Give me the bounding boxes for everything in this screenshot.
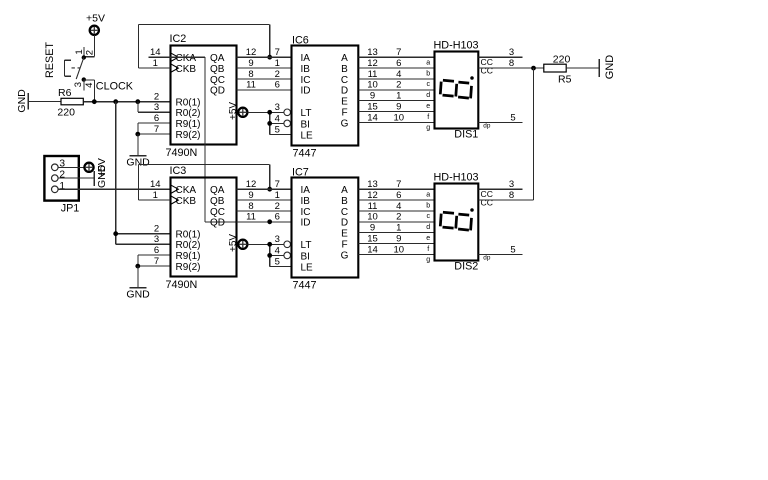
junction at switch output <box>92 99 97 104</box>
svg-text:IC7: IC7 <box>292 166 309 178</box>
connector JP1 <box>44 156 79 214</box>
junction LT <box>267 110 272 115</box>
IC3 pin names inside <box>176 185 226 273</box>
svg-text:IB: IB <box>301 64 311 75</box>
svg-text:HD-H103: HD-H103 <box>434 40 479 52</box>
svg-text:IC6: IC6 <box>292 34 309 46</box>
svg-text:R0(2): R0(2) <box>176 240 201 251</box>
svg-text:BI: BI <box>301 251 310 262</box>
svg-text:IC2: IC2 <box>170 33 187 45</box>
svg-text:6: 6 <box>154 113 159 124</box>
ground (left of R6) <box>16 89 61 113</box>
wire segment d pins 10/2 <box>358 80 434 99</box>
wire +5V to LT BI LE pins 3 4 5 <box>247 102 291 135</box>
svg-text:3: 3 <box>509 179 514 190</box>
IC7 pin names inside <box>301 185 349 273</box>
wire +5V to switch pin 2 <box>93 35 95 57</box>
svg-text:R6: R6 <box>58 87 72 99</box>
svg-text:8: 8 <box>509 190 514 201</box>
wire IC3 R9(1) pin 6 bend <box>138 255 171 266</box>
wire segment b pins 12/6 <box>358 58 434 77</box>
svg-text:5: 5 <box>510 244 515 255</box>
DIS2 seven-segment glyph <box>440 208 473 230</box>
wire DIS1 CC pin 8 to R5 <box>478 58 544 69</box>
svg-text:IC: IC <box>301 75 311 86</box>
svg-text:R9(2): R9(2) <box>176 262 201 273</box>
svg-text:g: g <box>426 257 430 264</box>
svg-text:10: 10 <box>394 112 405 123</box>
svg-text:7: 7 <box>275 179 280 190</box>
wire QC-IC with pin numbers 8/2 <box>237 69 292 80</box>
bubble LT <box>284 109 291 116</box>
svg-text:dp: dp <box>483 254 491 261</box>
svg-text:14: 14 <box>150 179 161 190</box>
svg-text:1: 1 <box>59 181 65 192</box>
bubble IC7 LT <box>284 241 291 248</box>
IC2 pin 14 CKA stub <box>148 47 170 58</box>
svg-text:c: c <box>426 81 430 88</box>
svg-text:QC: QC <box>210 75 225 86</box>
svg-text:7490N: 7490N <box>166 279 198 291</box>
DIS1 CC labels <box>481 57 493 130</box>
svg-text:6: 6 <box>396 190 401 201</box>
svg-text:GND: GND <box>604 55 616 80</box>
svg-text:7: 7 <box>154 124 159 135</box>
svg-text:3: 3 <box>509 47 514 58</box>
IC2 pin names inside <box>176 53 226 141</box>
svg-text:2: 2 <box>396 212 401 223</box>
svg-text:3: 3 <box>73 82 84 87</box>
svg-text:4: 4 <box>396 201 401 212</box>
svg-text:1: 1 <box>74 49 85 54</box>
svg-text:DIS1: DIS1 <box>454 129 478 141</box>
svg-text:CKB: CKB <box>176 196 197 207</box>
svg-text:7447: 7447 <box>293 148 317 160</box>
IC U IC3 7490N box <box>166 165 237 291</box>
junction BI <box>267 121 272 126</box>
svg-text:5: 5 <box>275 124 280 135</box>
svg-text:4: 4 <box>84 83 95 88</box>
wire segment a pins 13/7 <box>358 47 434 66</box>
svg-text:1: 1 <box>275 58 280 69</box>
svg-text:11: 11 <box>368 201 378 212</box>
svg-text:5: 5 <box>275 256 280 267</box>
switch pin labels 1 2 3 4 <box>73 49 96 88</box>
svg-text:10: 10 <box>367 80 378 91</box>
svg-text:10: 10 <box>394 244 405 255</box>
wire CC net down to DIS2 <box>533 68 535 200</box>
svg-text:R9(1): R9(1) <box>176 251 201 262</box>
svg-text:7490N: 7490N <box>166 147 198 159</box>
svg-text:9: 9 <box>248 58 253 69</box>
svg-text:RESET: RESET <box>44 42 56 78</box>
wire IC2 R9(1) pin 6 bend <box>138 123 171 134</box>
svg-text:13: 13 <box>367 179 378 190</box>
wire DIS1 CC pin 3 <box>478 47 522 58</box>
svg-text:CC: CC <box>481 66 493 76</box>
wire JP1 pin 2 to ground <box>58 177 94 179</box>
svg-text:15: 15 <box>367 233 378 244</box>
svg-text:9: 9 <box>248 190 253 201</box>
IC2 clock wedges <box>171 53 178 72</box>
svg-text:d: d <box>426 92 430 99</box>
svg-text:B: B <box>341 64 348 75</box>
svg-text:2: 2 <box>275 201 280 212</box>
svg-text:7: 7 <box>154 256 159 267</box>
svg-text:CKA: CKA <box>176 185 197 196</box>
svg-text:3: 3 <box>154 234 159 245</box>
ground (below IC2) <box>126 156 150 169</box>
svg-text:1: 1 <box>275 190 280 201</box>
svg-text:2: 2 <box>396 80 401 91</box>
svg-text:ID: ID <box>301 86 311 97</box>
svg-text:F: F <box>341 107 347 118</box>
svg-text:6: 6 <box>275 212 280 223</box>
wire JP1 pin 3 to +5V <box>58 166 84 168</box>
display DIS2 HD-H103 box <box>434 172 479 273</box>
junction at R0 bend <box>135 99 140 104</box>
wire DIS1 dp pin 5 <box>478 112 522 123</box>
svg-text:+5V: +5V <box>86 12 105 24</box>
svg-text:e: e <box>426 235 430 242</box>
svg-text:DIS2: DIS2 <box>454 261 478 273</box>
wire IC2 QA feedback to CKB <box>138 24 269 68</box>
svg-text:A: A <box>341 53 348 64</box>
display DIS1 HD-H103 box <box>434 40 479 141</box>
wire QA-IA with pin numbers 12/7 <box>237 47 292 58</box>
wire segment d row2 pins 10/2 <box>358 212 434 231</box>
wire segment e pins 9/1 <box>358 91 434 110</box>
svg-text:ID: ID <box>301 218 311 229</box>
svg-text:CKA: CKA <box>176 53 197 64</box>
svg-text:b: b <box>426 202 430 209</box>
wire down to ground below IC3 <box>137 266 139 288</box>
svg-text:b: b <box>426 70 430 77</box>
wire DIS2 dp pin 5 <box>478 244 522 255</box>
IC2 pin 1 CKB stub <box>138 58 170 69</box>
svg-text:9: 9 <box>396 101 401 112</box>
svg-text:QD: QD <box>210 86 225 97</box>
IC U IC7 7447 box <box>292 166 359 291</box>
svg-text:JP1: JP1 <box>61 202 80 214</box>
svg-text:HD-H103: HD-H103 <box>434 172 479 184</box>
svg-text:6: 6 <box>275 80 280 91</box>
svg-text:11: 11 <box>246 212 256 223</box>
svg-text:GND: GND <box>126 289 150 301</box>
svg-text:12: 12 <box>246 179 257 190</box>
svg-text:G: G <box>341 118 349 129</box>
svg-text:9: 9 <box>396 233 401 244</box>
svg-text:1: 1 <box>153 190 158 201</box>
svg-text:a: a <box>426 192 430 199</box>
wire segment f pins 15/9 <box>358 101 434 120</box>
junction IC3 QD cascade <box>267 219 272 224</box>
svg-text:IC3: IC3 <box>170 165 187 177</box>
junction R9 to ground <box>135 132 140 137</box>
resistor R5 220 <box>544 54 572 86</box>
IC U IC6 7447 box <box>292 34 359 159</box>
svg-text:IB: IB <box>301 196 311 207</box>
svg-text:11: 11 <box>246 80 256 91</box>
svg-text:11: 11 <box>368 69 378 80</box>
wire reset node to IC2 R0(1) pin 2 <box>83 101 170 103</box>
svg-text:5: 5 <box>510 112 515 123</box>
junction QA feedback <box>267 55 272 60</box>
svg-text:QD: QD <box>210 218 225 229</box>
svg-text:D: D <box>341 86 348 97</box>
svg-text:1: 1 <box>396 223 401 234</box>
svg-text:LT: LT <box>301 240 312 251</box>
wire segment a row2 pins 13/7 <box>358 179 434 198</box>
wire +5V to IC7 LT BI LE pins 3 4 5 <box>247 234 291 267</box>
svg-text:2: 2 <box>84 50 95 55</box>
svg-text:1: 1 <box>396 91 401 102</box>
svg-text:13: 13 <box>367 47 378 58</box>
wire segment c pins 11/4 <box>358 69 434 88</box>
IC2 left pin numbers 2 3 6 7 <box>154 92 159 135</box>
power +5V (top, feeds RESET switch) <box>86 12 105 35</box>
svg-text:IA: IA <box>301 53 311 64</box>
wire R5 to ground <box>566 67 599 69</box>
wire QD-ID with pin numbers 11/6 <box>237 80 292 91</box>
svg-text:LT: LT <box>301 108 312 119</box>
svg-text:3: 3 <box>275 234 280 245</box>
IC3 pin number labels left <box>150 179 161 267</box>
wire segment g pins 14/10 <box>358 112 434 131</box>
wire QB-IB with pin numbers 9/1 <box>237 58 292 69</box>
power +5V (JP1 pin 3) <box>84 158 108 177</box>
svg-text:15: 15 <box>367 101 378 112</box>
junction IC3 R9 to ground <box>135 264 140 269</box>
svg-text:9: 9 <box>370 91 375 102</box>
svg-text:8: 8 <box>248 201 253 212</box>
svg-text:F: F <box>341 239 347 250</box>
DIS1 seven-segment glyph <box>440 76 473 98</box>
svg-text:QB: QB <box>210 64 225 75</box>
DIS2 CC labels <box>481 189 493 261</box>
ground (below IC3) <box>126 288 150 301</box>
svg-text:2: 2 <box>59 170 65 181</box>
wire reset column down to IC3 R0 pins <box>116 102 171 245</box>
wire segment e row2 pins 9/1 <box>358 223 434 242</box>
svg-text:f: f <box>427 246 429 253</box>
wire cascade IC3 QD to IC2 CKA <box>171 57 237 222</box>
svg-text:QC: QC <box>210 207 225 218</box>
resistor R6 220 <box>57 87 83 118</box>
wire QC-IC row2 pins 8/2 <box>237 201 292 212</box>
svg-text:R0(1): R0(1) <box>176 230 201 241</box>
svg-text:CC: CC <box>481 198 493 208</box>
wire QB-IB row2 pins 9/1 <box>237 190 292 201</box>
IC U IC2 7490N box <box>166 33 237 159</box>
svg-text:2: 2 <box>154 224 159 235</box>
svg-text:7: 7 <box>396 47 401 58</box>
wire segment g row2 pins 14/10 <box>358 244 434 263</box>
svg-text:14: 14 <box>367 112 378 123</box>
svg-text:CKB: CKB <box>176 64 197 75</box>
svg-text:LE: LE <box>301 262 314 273</box>
svg-text:8: 8 <box>509 58 514 69</box>
bubble IC7 BI <box>284 252 291 259</box>
svg-text:R9(1): R9(1) <box>176 119 201 130</box>
ground (JP1 pin 2) <box>94 164 108 188</box>
junction IC7 LT <box>267 242 272 247</box>
svg-text:E: E <box>341 97 348 108</box>
wire segment b row2 pins 12/6 <box>358 190 434 209</box>
svg-text:IA: IA <box>301 185 311 196</box>
svg-text:QB: QB <box>210 196 225 207</box>
svg-text:BI: BI <box>301 119 310 130</box>
svg-text:d: d <box>426 224 430 231</box>
svg-text:9: 9 <box>370 223 375 234</box>
svg-text:1: 1 <box>153 58 158 69</box>
IC3 clock wedges <box>171 185 178 204</box>
wire DIS2 CC pin 8 to shared net <box>478 190 533 201</box>
svg-text:e: e <box>426 103 430 110</box>
svg-text:7: 7 <box>275 47 280 58</box>
svg-text:6: 6 <box>154 245 159 256</box>
wire DIS2 CC pin 3 <box>478 179 522 190</box>
junction IC3 R0(1) <box>113 231 118 236</box>
wire QD-ID row2 pins 11/6 <box>237 212 292 223</box>
svg-text:A: A <box>341 185 348 196</box>
wire segment f row2 pins 15/9 <box>358 233 434 252</box>
wire segment c row2 pins 11/4 <box>358 201 434 220</box>
svg-text:C: C <box>341 207 348 218</box>
svg-text:7: 7 <box>396 179 401 190</box>
wire bend to IC2 R0(2) pin 3 <box>138 102 171 113</box>
svg-text:C: C <box>341 75 348 86</box>
svg-text:f: f <box>427 114 429 121</box>
power +5V at IC6 LT/BI/LE <box>228 102 247 120</box>
svg-text:LE: LE <box>301 130 314 141</box>
svg-text:GND: GND <box>16 89 28 113</box>
svg-text:12: 12 <box>367 190 378 201</box>
junction CLOCK column <box>113 99 118 104</box>
junction IC7 BI <box>267 253 272 258</box>
svg-text:4: 4 <box>275 113 280 124</box>
svg-text:14: 14 <box>367 244 378 255</box>
svg-text:R0(2): R0(2) <box>176 108 201 119</box>
svg-text:220: 220 <box>57 106 75 118</box>
svg-text:3: 3 <box>154 102 159 113</box>
svg-text:G: G <box>341 250 349 261</box>
svg-text:14: 14 <box>150 47 161 58</box>
svg-text:4: 4 <box>396 69 401 80</box>
svg-text:R5: R5 <box>558 74 572 86</box>
svg-text:CLOCK: CLOCK <box>96 80 134 92</box>
svg-text:QA: QA <box>210 53 225 64</box>
svg-text:7447: 7447 <box>293 280 317 292</box>
svg-text:B: B <box>341 196 348 207</box>
svg-text:a: a <box>426 60 430 67</box>
svg-text:10: 10 <box>367 212 378 223</box>
svg-text:12: 12 <box>367 58 378 69</box>
svg-text:D: D <box>341 218 348 229</box>
wire IC2 R9(2) pin 7 <box>138 133 171 135</box>
wire JP1 pin 1 to IC3 CKA (clock input) <box>58 188 170 190</box>
svg-text:4: 4 <box>275 245 280 256</box>
svg-text:E: E <box>341 229 348 240</box>
svg-text:dp: dp <box>483 122 491 129</box>
svg-text:R0(1): R0(1) <box>176 98 201 109</box>
junction CC net <box>531 66 536 71</box>
svg-text:IC: IC <box>301 207 311 218</box>
power +5V at IC7 LT/BI/LE <box>228 234 247 252</box>
switch RESET pushbutton <box>64 47 94 101</box>
wire IC3 QA feedback to CKB <box>138 164 269 200</box>
svg-text:12: 12 <box>246 47 257 58</box>
svg-text:3: 3 <box>275 102 280 113</box>
svg-text:6: 6 <box>396 58 401 69</box>
svg-text:2: 2 <box>154 92 159 103</box>
wire down to ground below IC2 <box>137 134 139 156</box>
ground (right of R5) <box>599 55 616 80</box>
bubble BI <box>284 120 291 127</box>
svg-text:2: 2 <box>275 69 280 80</box>
svg-text:R9(2): R9(2) <box>176 130 201 141</box>
svg-text:g: g <box>426 125 430 132</box>
svg-text:QA: QA <box>210 185 225 196</box>
svg-text:8: 8 <box>248 69 253 80</box>
junction IC3 QA <box>267 187 272 192</box>
IC6 pin names inside <box>301 53 349 141</box>
svg-text:c: c <box>426 213 430 220</box>
svg-text:GND: GND <box>96 164 108 188</box>
wire QA-IA row2 pins 12/7 <box>237 179 292 190</box>
